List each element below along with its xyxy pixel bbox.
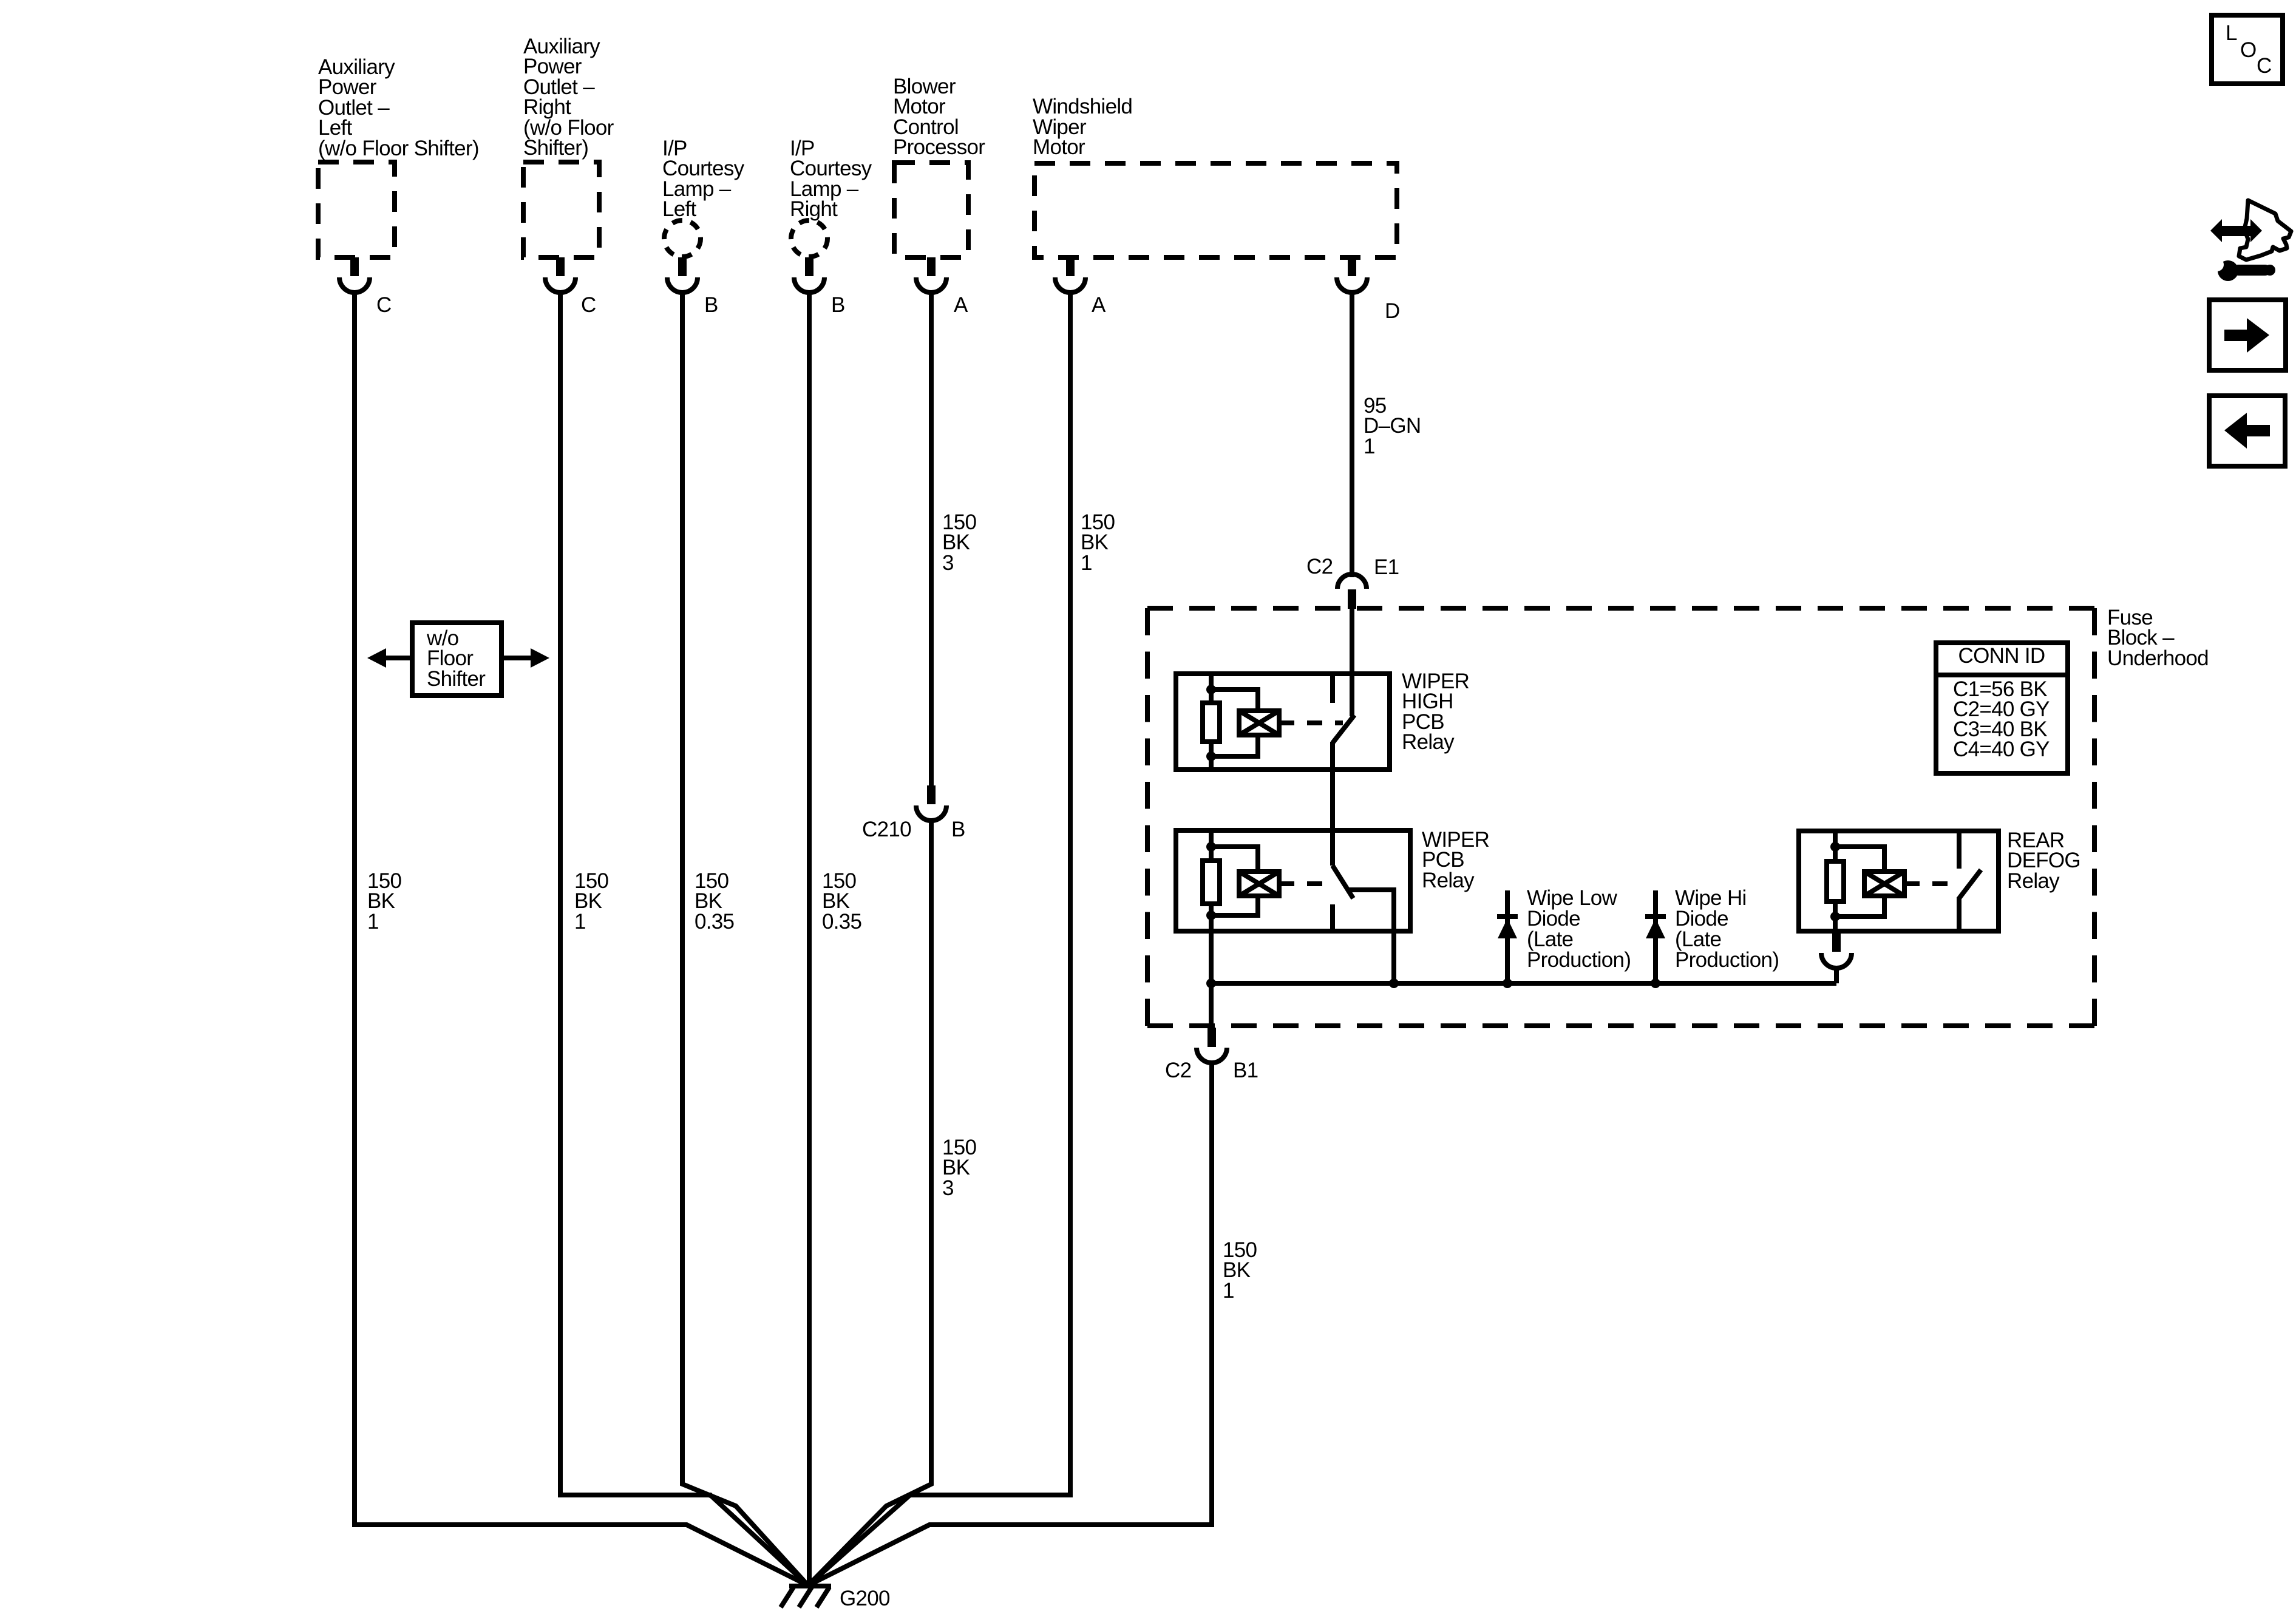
component: Auxiliary Power Outlet - Left label	[318, 55, 479, 160]
label Wipe Low Diode	[1527, 886, 1631, 972]
wire label 150 BK 0.35	[695, 869, 734, 934]
svg-text:B: B	[951, 818, 965, 841]
wire: WIPER HIGH output to WIPER PCB relay	[1330, 742, 1335, 866]
svg-text:0.35: 0.35	[695, 910, 734, 934]
svg-text:1: 1	[1364, 435, 1375, 458]
connector pin A of Blower Motor Control Processor	[927, 257, 936, 276]
wire: REAR DEFOG coil branch bottom	[1835, 896, 1884, 917]
svg-text:E1: E1	[1374, 555, 1399, 579]
double arrow	[2220, 226, 2251, 236]
connector pin C of Auxiliary Power Outlet - Left	[350, 257, 359, 276]
arrow right of w/o Floor Shifter box	[501, 656, 531, 660]
svg-text:G200: G200	[840, 1587, 890, 1610]
relay label WIPER PCB Relay	[1422, 828, 1489, 892]
Fuse Block - Underhood label	[2107, 606, 2209, 670]
svg-text:C: C	[376, 293, 392, 317]
relay label REAR DEFOG Relay	[2007, 829, 2080, 893]
relay: WIPER HIGH PCB Relay box	[1176, 674, 1390, 770]
component: I/P Courtesy Lamp - Right label	[790, 137, 872, 221]
wire: E1 feed into WIPER HIGH relay	[1350, 608, 1354, 716]
connector C210 cup	[916, 805, 946, 821]
svg-text:C2: C2	[1165, 1059, 1191, 1082]
fixed contact stub WIPER PCB	[1330, 904, 1335, 931]
svg-text:1: 1	[574, 910, 586, 934]
wire: WIPER PCB relay left branch down to C2 B1	[1209, 830, 1214, 1029]
icon: LOC box top right	[2212, 15, 2283, 84]
component: Auxiliary Power Outlet - Right label	[523, 35, 614, 160]
component: Windshield Wiper Motor label	[1033, 95, 1132, 159]
svg-text:Relay: Relay	[1422, 869, 1475, 892]
connector pin A of Windshield Wiper Motor	[1066, 257, 1075, 276]
wire: WIPER PCB coil branch bottom	[1211, 896, 1258, 915]
resistor in WIPER HIGH relay	[1203, 703, 1220, 742]
connector B1 pin	[1207, 1028, 1216, 1047]
junction dots WIPER HIGH	[1206, 685, 1216, 694]
svg-text:L: L	[2226, 21, 2237, 45]
coil in REAR DEFOG relay	[1864, 872, 1904, 896]
svg-text:Processor: Processor	[893, 135, 985, 159]
selector box: w/o Floor Shifter	[412, 623, 501, 696]
wire: ground bus inside fuse block	[1211, 981, 1836, 986]
svg-text:B1: B1	[1233, 1059, 1258, 1082]
switch blade REAR DEFOG	[1959, 870, 1981, 898]
svg-text:Shifter): Shifter)	[523, 136, 588, 160]
connector cup B of I/P Courtesy Lamp - Right	[794, 277, 824, 293]
Fuse Block - Underhood dashed box	[1147, 608, 2094, 1026]
component: Auxiliary Power Outlet - Right dashed box	[523, 162, 599, 257]
wire: WIPER PCB switch output	[1349, 890, 1394, 983]
svg-text:A: A	[1092, 293, 1106, 317]
wire: Aux Power Outlet Right ground wire 150 BK 1	[560, 292, 808, 1585]
svg-text:(w/o Floor Shifter): (w/o Floor Shifter)	[318, 137, 479, 160]
arrow left of w/o Floor Shifter box	[385, 656, 412, 660]
svg-text:Motor: Motor	[1033, 135, 1085, 159]
svg-text:C210: C210	[862, 818, 911, 841]
svg-text:Left: Left	[662, 197, 697, 221]
dashed linkage WIPER PCB	[1279, 881, 1333, 886]
junction dot bus left	[1206, 978, 1216, 988]
wire: I/P Courtesy Lamp Left ground wire 150 BK 0.35	[682, 292, 808, 1585]
connector cup A of Windshield Wiper Motor	[1055, 277, 1085, 293]
wire: WIPER PCB coil branch top	[1211, 847, 1258, 872]
connector cup B of I/P Courtesy Lamp - Left	[667, 277, 698, 293]
fixed contact stub WIPER HIGH	[1330, 674, 1335, 703]
connector B1 cup	[1197, 1048, 1227, 1063]
junction dot bus at wiper pcb output	[1389, 978, 1399, 988]
svg-text:Shifter: Shifter	[427, 667, 486, 691]
connector cup D of Windshield Wiper Motor	[1337, 277, 1367, 293]
wire: Aux Power Outlet Left ground wire 150 BK 1	[355, 292, 808, 1585]
resistor in REAR DEFOG relay	[1827, 861, 1844, 901]
component: Blower Motor Control Processor label	[893, 75, 985, 159]
dashed linkage REAR DEFOG	[1904, 881, 1951, 886]
connector cup A of Blower Motor Control Processor	[916, 277, 946, 293]
wire label 150 BK 1	[1223, 1238, 1257, 1303]
svg-text:Production): Production)	[1527, 948, 1631, 972]
wire label 95 D-GN 1	[1364, 394, 1421, 458]
coil in WIPER PCB relay	[1239, 872, 1279, 896]
wire label 150 BK 3	[942, 1136, 977, 1200]
diode: Wipe Hi Diode	[1645, 890, 1666, 983]
svg-text:CONN ID: CONN ID	[1958, 644, 2045, 668]
wire label 150 BK 3	[942, 510, 977, 575]
hand outline	[2239, 200, 2291, 260]
wire: Windshield Wiper Motor D wire 95 D-GN 1	[1350, 292, 1354, 577]
svg-text:Relay: Relay	[1402, 730, 1455, 754]
wire: fuse block exit to C2 B1	[1209, 983, 1214, 1029]
wire: WIPER HIGH coil branch bottom	[1211, 734, 1258, 756]
svg-text:Production): Production)	[1675, 948, 1779, 972]
switch blade WIPER HIGH	[1333, 715, 1354, 743]
dashed linkage WIPER HIGH	[1279, 720, 1343, 725]
connector pin B of I/P Courtesy Lamp - Right	[805, 257, 813, 276]
svg-text:Underhood: Underhood	[2107, 646, 2209, 670]
svg-text:D: D	[1385, 299, 1400, 323]
CONN ID table	[1936, 643, 2068, 773]
wire label 150 BK 0.35	[822, 869, 861, 934]
svg-text:B: B	[704, 293, 718, 317]
wire: Windshield Wiper Motor A ground wire 150 BK 1	[808, 292, 1070, 1585]
icon: left arrow box	[2209, 396, 2285, 466]
icon: adjustable component hand and wrench	[2210, 200, 2291, 281]
wire label 150 BK 1	[367, 869, 402, 934]
connector E1 pin	[1348, 589, 1356, 609]
wire: Blower Motor wire 150 BK 3 lower segment	[808, 821, 931, 1585]
svg-text:1: 1	[1223, 1279, 1234, 1303]
connector E1 cup	[1337, 574, 1367, 589]
wire: REAR DEFOG output to bus	[1834, 968, 1839, 983]
component: Blower Motor Control Processor dashed box	[894, 163, 968, 257]
svg-text:1: 1	[367, 910, 379, 934]
component: I/P Courtesy Lamp - Left label	[662, 137, 745, 221]
svg-text:Relay: Relay	[2007, 869, 2060, 893]
relay label WIPER HIGH PCB Relay	[1402, 670, 1469, 754]
svg-text:C: C	[2257, 54, 2272, 78]
ground G200 symbol	[781, 1586, 831, 1607]
fixed contact stub REAR DEFOG bottom	[1957, 897, 1961, 931]
wire: Blower Motor Control Processor wire 150 BK 3 upper segment	[929, 292, 934, 787]
resistor in WIPER PCB relay	[1203, 861, 1220, 904]
svg-text:A: A	[954, 293, 968, 317]
svg-text:3: 3	[942, 551, 954, 575]
component: Windshield Wiper Motor dashed box	[1034, 163, 1397, 257]
connector pin below REAR DEFOG	[1832, 931, 1841, 952]
fixed contact stub REAR DEFOG top	[1957, 831, 1961, 869]
connector pin B of I/P Courtesy Lamp - Left	[678, 257, 687, 276]
relay: REAR DEFOG Relay box	[1799, 831, 1999, 931]
wire: REAR DEFOG coil branch top	[1835, 847, 1884, 872]
wire: REAR DEFOG relay left branch	[1833, 831, 1838, 931]
wire label 150 BK 1	[574, 869, 609, 934]
svg-text:C: C	[581, 293, 596, 317]
svg-text:C4=40 GY: C4=40 GY	[1953, 737, 2050, 761]
wire: WIPER HIGH coil branch top	[1211, 690, 1258, 712]
icon: right arrow box	[2209, 300, 2286, 370]
component: Auxiliary Power Outlet - Left dashed box	[318, 162, 395, 257]
svg-text:O: O	[2240, 38, 2257, 62]
svg-text:1: 1	[1081, 551, 1092, 575]
wire: WIPER HIGH relay left branch	[1209, 674, 1214, 770]
svg-text:3: 3	[942, 1176, 954, 1200]
svg-text:C2: C2	[1306, 555, 1333, 578]
connector cup C of Auxiliary Power Outlet - Right	[545, 277, 576, 293]
connector cup C of Auxiliary Power Outlet - Left	[339, 277, 370, 293]
connector pin D of Windshield Wiper Motor	[1348, 257, 1356, 276]
connector C210 pin	[927, 785, 936, 804]
relay: WIPER PCB Relay box	[1176, 830, 1410, 931]
svg-text:0.35: 0.35	[822, 910, 861, 934]
junction dots WIPER PCB	[1206, 842, 1216, 852]
svg-text:B: B	[831, 293, 845, 317]
component: I/P Courtesy Lamp - Right dashed circle	[791, 220, 827, 257]
diode: Wipe Low Diode	[1497, 890, 1518, 983]
connector pin C of Auxiliary Power Outlet - Right	[556, 257, 565, 276]
switch blade WIPER PCB	[1333, 866, 1353, 898]
junction dot at Wipe Low Diode	[1503, 978, 1512, 988]
connector cup below REAR DEFOG	[1821, 953, 1852, 968]
wire label 150 BK 1	[1081, 510, 1115, 575]
svg-text:Right: Right	[790, 197, 838, 221]
wire: C2 B1 ground wire 150 BK 1	[808, 1063, 1212, 1585]
label Wipe Hi Diode	[1675, 886, 1779, 972]
wire: I/P Courtesy Lamp Right ground wire 150 BK 0.35	[807, 292, 812, 1585]
junction dot at Wipe Hi Diode	[1651, 978, 1660, 988]
coil in WIPER HIGH relay	[1239, 711, 1279, 735]
junction dots REAR DEFOG	[1830, 842, 1840, 852]
component: I/P Courtesy Lamp - Left dashed circle	[664, 220, 701, 257]
wrench	[2218, 260, 2238, 281]
